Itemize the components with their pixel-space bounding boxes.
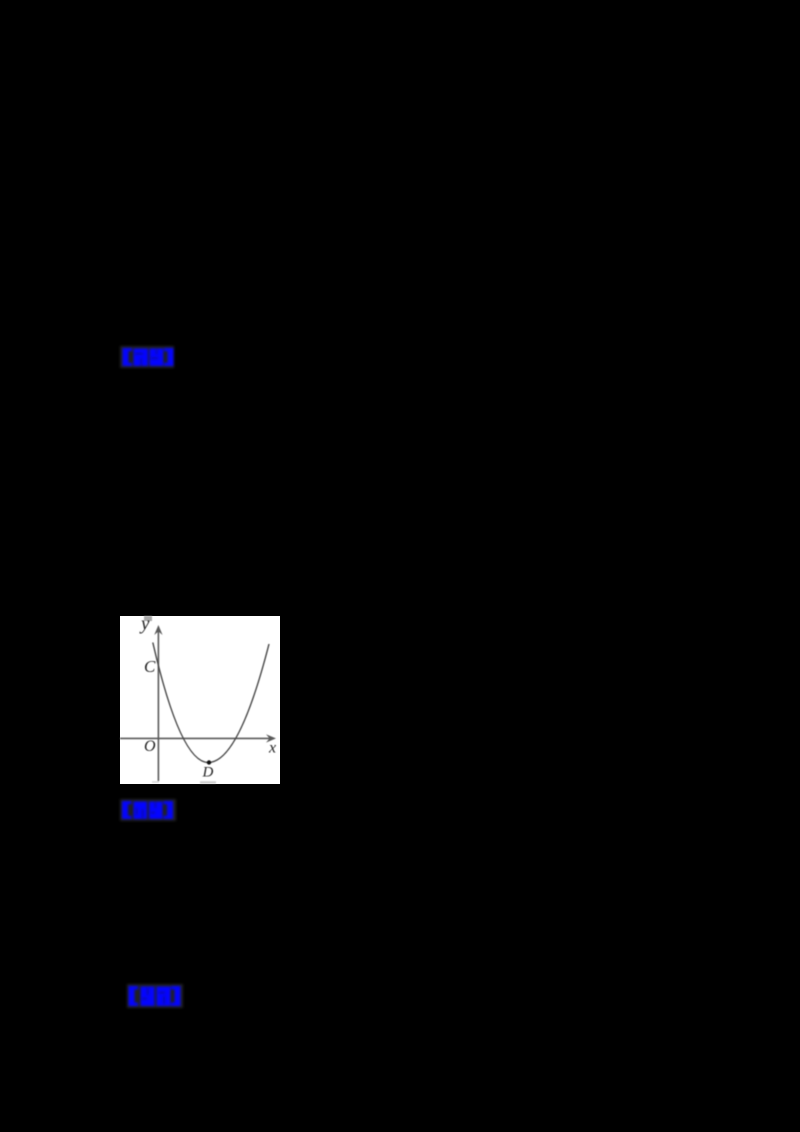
x-axis	[120, 737, 274, 739]
vertex dot D	[207, 760, 211, 764]
graph figure	[120, 616, 280, 784]
glyph blob 2	[149, 802, 163, 820]
label header 3 (jieda) blue bracketed tag	[127, 984, 183, 1008]
svg-text:C: C	[144, 657, 156, 676]
right bracket	[168, 348, 174, 366]
right bracket	[175, 986, 181, 1006]
glyph blob 1	[141, 987, 155, 1007]
artifact smudge under D	[200, 781, 216, 783]
left bracket	[122, 801, 128, 819]
artifact smudge under y-axis foot	[152, 781, 159, 783]
label header 1 (kaodian) blue bracketed tag	[120, 346, 174, 368]
glyph blob 2	[150, 349, 164, 367]
glyph blob 1	[134, 349, 149, 367]
y-axis	[157, 627, 159, 781]
glyph blob 2	[157, 987, 171, 1007]
glyph blob 1	[134, 802, 148, 820]
label header 2 (fenxi) blue bracketed tag	[120, 799, 176, 821]
left bracket	[123, 348, 129, 366]
svg-text:y: y	[139, 616, 150, 635]
svg-text:D: D	[202, 765, 214, 781]
right bracket	[167, 801, 173, 819]
gray scanning artifact mark	[144, 616, 152, 621]
svg-text:O: O	[144, 738, 156, 755]
parabola	[153, 643, 269, 763]
svg-text:x: x	[268, 740, 276, 757]
left bracket	[129, 986, 135, 1006]
